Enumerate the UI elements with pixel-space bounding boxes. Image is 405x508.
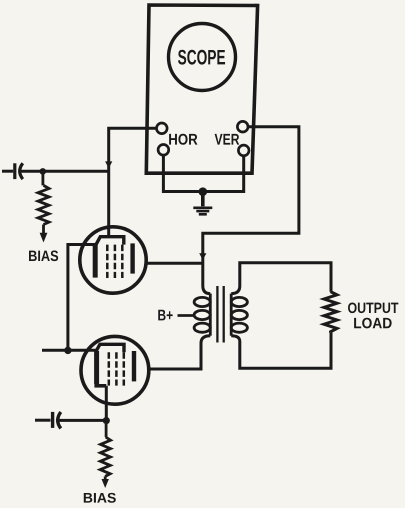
label OUTPUT [348,303,398,314]
wire: VER top terminal to plate node, down to transformer primary top [203,127,299,294]
wire: capacitor C2 left lead [35,419,51,422]
node: ground junction dot [199,187,208,196]
wire: V2 plate to transformer primary bottom [149,336,211,369]
label B+ [158,310,172,321]
label BIAS (V2) [84,493,116,503]
label HOR [169,134,197,145]
resistor R1 (bias V1) [38,174,49,234]
terminal HOR bottom [158,145,169,156]
wire: V2 cathode to node D [105,386,108,421]
wire: ground stub [201,192,205,207]
resistor R3 OUTPUT LOAD [324,292,337,333]
arrow: signal at node B [199,253,206,260]
transformer T1 primary winding [194,294,210,336]
ground [193,208,212,215]
node D junction dot [103,417,110,424]
wire: V1 plate to node B [146,262,203,265]
terminal VER bottom [238,145,249,156]
arrow: R2 bias arrow [102,479,109,488]
label LOAD [354,318,392,329]
arrow: R1 bias arrow [40,233,48,243]
arrow: signal into V1 grid [105,161,112,168]
wire: HOR top terminal to V1 grid (node A vertical) [109,128,157,237]
transformer T1 core [217,286,223,343]
wire: common cathode line to V1/V2 [42,349,97,352]
vacuum tube V1 [80,227,146,293]
label BIAS (V1) [29,251,58,262]
terminal VER top [237,121,248,132]
vacuum tube V2 [81,336,149,404]
node A junction dot [40,168,47,175]
label VER [215,134,240,145]
terminal HOR top [157,123,168,134]
wire: C2 to node D [58,419,107,422]
transformer T1 secondary winding [231,294,247,336]
oscilloscope panel [146,5,257,173]
wire: HOR bottom terminal to ground node [163,155,202,192]
node C junction dot [64,347,71,354]
wire: output load loop bottom return [231,333,331,369]
wire: C1 to node A [20,170,109,173]
wire: B+ lead to primary center tap [178,314,194,317]
wire: V1 cathode down-link to node C [68,245,95,351]
label SCOPE [178,50,225,65]
wire: secondary top to output load loop [231,263,331,294]
resistor R2 (bias V2) [100,424,110,480]
wire: VER bottom terminal to ground node [203,156,244,192]
capacitor C1 [15,163,23,179]
scope CRT circle [169,24,236,91]
wire: capacitor C1 left lead [2,170,13,173]
capacitor C2 [53,412,61,429]
